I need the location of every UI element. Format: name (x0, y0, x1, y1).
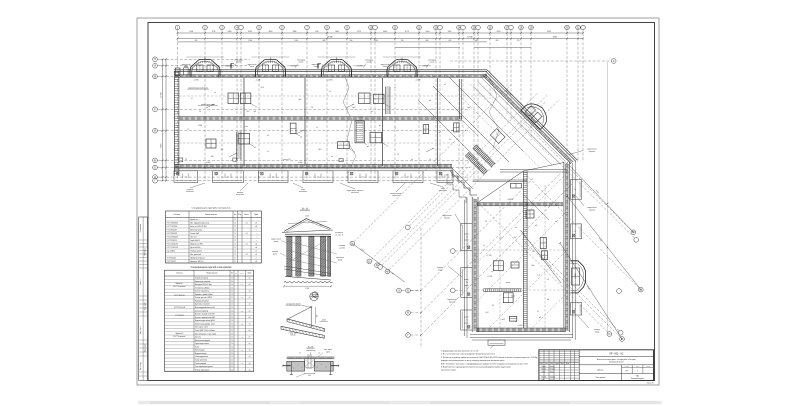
svg-text:12 040: 12 040 (467, 37, 472, 39)
svg-text:в2: в2 (267, 151, 269, 153)
detail A-A head band (285, 233, 331, 235)
svg-text:ООО "Техноплекс": ООО "Техноплекс" (173, 286, 186, 288)
vertical wing bottom eaves lines (470, 334, 573, 336)
svg-text:Наименование: Наименование (205, 214, 217, 216)
svg-text:ГОСТ 11047-90: ГОСТ 11047-90 (167, 247, 178, 249)
page outer border (137, 18, 659, 385)
horizontal wing top wall band (174, 75, 487, 78)
svg-text:Листов: Листов (646, 366, 650, 368)
svg-text:выполнить: выполнить (351, 192, 359, 194)
right side diagonal axes (525, 124, 631, 230)
axis line t14 (418, 30, 420, 33)
svg-text:1 п: 1 п (272, 176, 274, 178)
svg-text:12: 12 (234, 230, 236, 232)
svg-text:0.4: 0.4 (246, 233, 248, 235)
axis line t18 (462, 30, 464, 33)
svg-text:л2: л2 (353, 152, 355, 154)
svg-text:монтажных схемах.: монтажных схемах. (441, 370, 457, 372)
title block left grid (543, 350, 545, 381)
axis bubble 3с (375, 263, 380, 268)
svg-text:"Костромаоблпроект": "Костромаоблпроект" (631, 378, 645, 380)
roof window (240, 93, 250, 104)
axis bubble (405, 225, 410, 230)
chimney left of dormer1 (184, 68, 188, 75)
svg-text:ГОСТ 30693-00: ГОСТ 30693-00 (167, 223, 178, 225)
axis line t9 (326, 30, 328, 33)
svg-text:3920: 3920 (248, 31, 252, 33)
svg-text:Счет обрамления кровли: Счет обрамления кровли (195, 366, 213, 368)
svg-text:снегозадер-: снегозадер- (365, 59, 374, 61)
svg-text:м2: м2 (249, 297, 251, 299)
svg-text:м2: м2 (249, 310, 251, 312)
guard lower rail (281, 326, 324, 338)
vertical wing bottom wall band (476, 328, 566, 332)
axis line Н (158, 65, 166, 67)
svg-text:План кровли: План кровли (596, 377, 605, 379)
axis line t24 (520, 30, 522, 33)
svg-text:уклон 2%: уклон 2% (283, 159, 291, 161)
2-cell box near wing top (511, 183, 522, 188)
svg-text:уклон: уклон (506, 282, 511, 284)
svg-text:1 п: 1 п (407, 176, 409, 178)
svg-text:ГОСТ 19904-90: ГОСТ 19904-90 (167, 237, 178, 239)
leader lines bottom labels (190, 183, 205, 188)
svg-text:1110: 1110 (315, 31, 319, 33)
axis bubble Г (406, 333, 411, 338)
svg-text:размеры всех узлов уточнить по: размеры всех узлов уточнить по месту по … (441, 359, 505, 362)
axis bubble 7 (305, 25, 310, 30)
svg-text:Спецификация изделий и материа: Спецификация изделий и материалов (191, 266, 233, 269)
svg-text:+8.100: +8.100 (575, 273, 577, 278)
right octagon bay (570, 261, 585, 293)
svg-text:1840: 1840 (335, 31, 339, 33)
svg-text:1 п: 1 п (362, 176, 364, 178)
svg-text:Дом №: Дом № (597, 368, 603, 371)
svg-text:лист оцинк.: лист оцинк. (324, 349, 333, 351)
axis line t10 (346, 30, 348, 33)
small vents on bottom wall (179, 158, 183, 162)
ridge walkway ladder (484, 288, 522, 290)
title block right part (578, 350, 580, 381)
svg-text:200: 200 (308, 375, 311, 377)
title block frame (539, 350, 654, 381)
svg-text:ГОСТ 7473-94: ГОСТ 7473-94 (167, 226, 177, 228)
horizontal wing bottom eaves lines (174, 168, 453, 170)
svg-text:1000: 1000 (189, 31, 193, 33)
detail A-A top dim (288, 222, 327, 224)
section B-B joint gap piece (305, 359, 315, 368)
svg-text:0.25: 0.25 (241, 337, 244, 339)
axis line Г (158, 180, 166, 182)
svg-text:Взам. инв. №: Взам. инв. № (140, 325, 142, 334)
svg-text:и7: и7 (439, 132, 441, 134)
svg-text:уклон: уклон (244, 126, 248, 128)
detail A-A bottom dim (284, 285, 331, 287)
svg-text:м2: м2 (255, 254, 257, 256)
svg-text:8 360: 8 360 (553, 37, 557, 39)
roof window (370, 132, 382, 142)
axis bubble (476, 25, 481, 30)
svg-text:входа: входа (595, 332, 599, 334)
svg-text:Стадия: Стадия (625, 366, 630, 368)
svg-text:5500: 5500 (426, 31, 430, 33)
roof window (540, 237, 546, 248)
svg-text:Зонт вентшахты - сталь оцинк.: Зонт вентшахты - сталь оцинк. (195, 333, 217, 335)
axis bubble 4 (235, 25, 240, 30)
axis bubble (450, 288, 455, 293)
svg-text:0.25: 0.25 (241, 323, 244, 325)
axis line t3 (221, 30, 223, 33)
svg-text:Обознач.: Обознач. (173, 214, 181, 216)
eaves line above dormers (186, 56, 224, 58)
svg-text:Желоб водост.: Желоб водост. (195, 350, 206, 352)
svg-text:+4.2: +4.2 (469, 167, 472, 169)
svg-text:м2: м2 (249, 350, 251, 352)
svg-text:12: 12 (234, 226, 236, 228)
svg-text:Подп: Подп (560, 363, 563, 365)
svg-text:в3: в3 (535, 225, 537, 227)
svg-text:1п: 1п (467, 237, 469, 239)
axis bubble 10 (369, 25, 374, 30)
axis line t2 (204, 30, 206, 33)
svg-text:выполнить: выполнить (299, 191, 307, 193)
svg-text:620: 620 (449, 40, 452, 42)
horizontal wing left wall band (ladder style) (173, 71, 175, 176)
svg-text:+7.120: +7.120 (486, 255, 491, 257)
svg-text:1 340: 1 340 (248, 40, 252, 42)
svg-text:+4.160: +4.160 (444, 175, 449, 177)
roof ladder (236, 132, 238, 160)
svg-text:4. Изменения по стадии докумен: 4. Изменения по стадии документы проекта… (441, 366, 511, 369)
svg-text:м2: м2 (249, 369, 251, 371)
svg-text:46 480: 46 480 (327, 37, 332, 39)
svg-text:1960: 1960 (448, 31, 452, 33)
svg-text:12: 12 (234, 258, 236, 260)
svg-text:Лотки: Лотки (195, 346, 199, 348)
svg-text:м3: м3 (255, 226, 257, 228)
svg-text:ГОСТ 23-101-04: ГОСТ 23-101-04 (174, 307, 185, 309)
svg-text:Смирнов: Смирнов (550, 377, 556, 379)
svg-text:входная: входная (187, 189, 193, 191)
roof window (509, 316, 516, 321)
vertical wing right eaves lines (572, 163, 574, 338)
svg-text:Кол: Кол (231, 273, 233, 275)
svg-text:12: 12 (234, 237, 236, 239)
svg-text:Орлов: Орлов (550, 371, 554, 373)
svg-text:Справ. №: Справ. № (140, 278, 142, 284)
junction steps (452, 169, 477, 195)
svg-text:водосточная воронка: водосточная воронка (347, 190, 364, 192)
svg-text:+10.8: +10.8 (260, 87, 264, 89)
axis bubble К (611, 59, 616, 64)
detail A-A circle mark (312, 292, 318, 298)
svg-text:кв: кв (491, 271, 493, 273)
axis line t13 (394, 30, 396, 33)
diagonal dashed axes from lower-left (421, 179, 533, 291)
vertical wing top-right horizontal band (500, 169, 567, 171)
axis bubble (461, 25, 466, 30)
section B-B dims (305, 373, 315, 375)
svg-text:ВСЕ: "Техноплекс" или аналог -: ВСЕ: "Техноплекс" или аналог - сертифици… (441, 362, 528, 365)
svg-text:Вариант 2: Вариант 2 (176, 333, 184, 335)
stage sheet cells (621, 365, 623, 381)
axis bubble 5 (257, 25, 262, 30)
roof window (338, 142, 350, 149)
svg-text:л1: л1 (388, 107, 390, 109)
svg-text:ш1: ш1 (367, 146, 369, 148)
roof window (423, 125, 429, 134)
svg-text:Стяжка цем.-песч. М150: Стяжка цем.-песч. М150 (195, 297, 212, 299)
svg-text:ГИП Иванов: ГИП Иванов (145, 248, 147, 256)
svg-text:компенсатор: компенсатор (307, 350, 316, 352)
axis bubble (373, 25, 378, 30)
svg-text:+4.870: +4.870 (415, 80, 420, 82)
axis line t5 (240, 30, 242, 33)
svg-text:Кр1: Кр1 (254, 111, 257, 113)
roof window (359, 93, 371, 104)
axis line t22 (506, 30, 508, 33)
svg-text:Н.контр.: Н.контр. (542, 377, 548, 379)
svg-text:900 мм: 900 мм (291, 335, 296, 337)
svg-text:2570: 2570 (357, 31, 361, 33)
svg-text:козырек: козырек (594, 329, 600, 331)
roof window (228, 93, 238, 104)
vertical wing ridge ladder (522, 171, 524, 328)
vertical wing interior dashed (499, 190, 501, 328)
svg-text:3540: 3540 (547, 31, 551, 33)
svg-text:4650: 4650 (269, 31, 273, 33)
svg-text:1 130: 1 130 (374, 40, 378, 42)
bubbles left of vertical wing (455, 250, 462, 252)
svg-text:Воронки желоба: Воронки желоба (195, 353, 207, 355)
svg-text:выполнить: выполнить (392, 195, 400, 197)
svg-text:доска: доска (273, 253, 277, 255)
axis bubble Ж (153, 158, 158, 163)
svg-text:ТУ 5774-001: ТУ 5774-001 (167, 258, 176, 260)
svg-text:(согласно проекту): (согласно проекту) (195, 310, 209, 312)
axis bubble (450, 249, 455, 254)
left wall balcony bays (461, 224, 472, 251)
svg-text:ТЗ: ТЗ (187, 129, 189, 131)
axis bubble Б (406, 288, 411, 293)
svg-text:Б-3: Б-3 (486, 312, 489, 314)
svg-text:12: 12 (234, 219, 236, 221)
axis line t23 (510, 30, 512, 33)
svg-text:водосточная: водосточная (587, 149, 596, 151)
svg-text:ТУ 5774-001: ТУ 5774-001 (175, 315, 184, 317)
svg-text:12: 12 (234, 251, 236, 253)
axis line Ж (158, 159, 166, 161)
right diagonal dimension lines (567, 163, 633, 232)
diagonal dashed axes through wing (477, 175, 565, 263)
svg-text:желоб: желоб (250, 66, 254, 68)
axis line t20 (477, 30, 479, 33)
axis line t17 (458, 30, 460, 33)
svg-text:ж4: ж4 (451, 130, 453, 132)
axis bubble 16 (488, 25, 493, 30)
axis line t16 (439, 30, 441, 33)
axis line t11 (370, 30, 372, 33)
axis bubble (438, 25, 443, 30)
roof ladder (385, 87, 387, 114)
leader to gutter label right (569, 151, 583, 155)
axis bubble 8с (620, 337, 625, 342)
svg-text:ГОСТ 8509-93: ГОСТ 8509-93 (167, 233, 177, 235)
svg-text:Бетон кл. В15 F75 W4: Бетон кл. В15 F75 W4 (190, 226, 206, 228)
axis bubble 20 (565, 25, 570, 30)
svg-text:ГИП: ГИП (542, 379, 545, 381)
svg-text:ГОСТ 24045-94: ГОСТ 24045-94 (167, 244, 178, 246)
roof window (503, 293, 513, 303)
angled stair band (dense hatch) (467, 154, 486, 173)
svg-text:1 п: 1 п (227, 176, 229, 178)
svg-text:водосточная: водосточная (587, 207, 596, 209)
svg-text:ж2: ж2 (444, 84, 446, 86)
roof window (526, 210, 534, 218)
svg-text:540: 540 (475, 40, 478, 42)
axis line t7 (281, 30, 283, 33)
svg-text:см. лист 8: см. лист 8 (335, 234, 343, 236)
horizontal wing top eaves line (174, 69, 487, 71)
svg-text:вход: вход (301, 189, 305, 191)
horizontal wing bottom wall band (174, 164, 452, 167)
axis line t26 (566, 30, 568, 33)
svg-text:1. Деформационные швы выполнит: 1. Деформационные швы выполнить по т.л. … (441, 350, 479, 353)
svg-text:3. Работы по устройству кровли: 3. Работы по устройству кровли вести сог… (441, 356, 538, 359)
axis bubble 6с (638, 287, 643, 292)
detail A-A bottom slope lines (284, 266, 331, 274)
svg-text:вход: вход (441, 188, 445, 190)
svg-text:1 200: 1 200 (305, 288, 309, 290)
svg-text:в2: в2 (300, 137, 302, 139)
svg-text:25°: 25° (292, 226, 295, 228)
svg-text:Кол: Кол (545, 363, 547, 365)
svg-text:снегозадер-: снегозадер- (428, 59, 437, 61)
svg-text:1п: 1п (467, 282, 469, 284)
svg-text:Кровля из ...: Кровля из ... (190, 219, 200, 221)
axis line t28 (582, 30, 584, 33)
svg-text:660: 660 (323, 40, 326, 42)
svg-text:жатель: жатель (299, 62, 304, 64)
scan shadow at image bottom (138, 401, 662, 404)
svg-text:Масса: Масса (244, 214, 248, 216)
axis bubble K top right (450, 60, 610, 62)
axis bubble 2 (203, 25, 208, 30)
axis line t12 (374, 30, 376, 33)
axis K extension line (606, 62, 608, 334)
svg-text:1-4°: 1-4° (538, 275, 541, 277)
roof window (511, 262, 519, 268)
axis line И (158, 130, 166, 132)
angled wing outer eaves (487, 70, 578, 161)
axis line t8 (306, 30, 308, 33)
svg-text:м2: м2 (255, 223, 257, 225)
svg-text:50х50: 50х50 (338, 259, 342, 261)
svg-text:л1: л1 (316, 127, 318, 129)
svg-text:м2: м2 (249, 304, 251, 306)
axis bubble Е (153, 165, 158, 170)
axis bubble (509, 25, 514, 30)
svg-text:ГОСТ 30547-97: ГОСТ 30547-97 (174, 295, 185, 297)
axis bubble 5с (631, 230, 636, 235)
svg-text:Многоэтажные жилые дома с 1-б: Многоэтажные жилые дома с 1-б видов рабо… (597, 359, 637, 361)
guard rail detail (281, 303, 328, 338)
axis bubble (618, 330, 623, 335)
svg-text:Подп. и дата: Подп. и дата (145, 302, 147, 310)
leader below wing (490, 345, 494, 349)
axis bubble 1с (350, 241, 355, 246)
svg-text:кв: кв (394, 87, 396, 89)
svg-text:жатель: жатель (430, 62, 435, 64)
vertical wing top corridor band (477, 203, 563, 206)
svg-text:1 550: 1 550 (184, 65, 188, 67)
axis bubble 4с (385, 269, 390, 274)
bottom balcony bays (174, 171, 198, 183)
svg-text:Прим.: Прим. (254, 214, 259, 216)
svg-text:кв: кв (214, 92, 216, 94)
roof window (290, 123, 296, 134)
svg-text:Трубы водосточные: Трубы водосточные (195, 343, 209, 345)
roof window (493, 261, 503, 271)
svg-text:л3: л3 (329, 91, 331, 93)
svg-text:Кол: Кол (234, 214, 237, 216)
svg-text:Климова: Климова (550, 379, 556, 381)
svg-text:м2: м2 (255, 261, 257, 263)
axis bubble А (397, 288, 402, 293)
svg-text:Инв. № подл.: Инв. № подл. (140, 361, 142, 370)
svg-text:м2: м2 (255, 244, 257, 246)
svg-text:М.ед: М.ед (238, 214, 241, 216)
axis bubble 2с (367, 259, 372, 264)
detail A-A corrugated sheet (284, 281, 332, 282)
svg-text:Вариант 1: Вариант 1 (176, 283, 184, 285)
vertical wing left eaves lines (464, 200, 466, 336)
svg-text:и5: и5 (379, 125, 381, 127)
svg-text:л2: л2 (429, 159, 431, 161)
svg-text:сер.1.038-1: сер.1.038-1 (167, 251, 176, 253)
detail A-A roof peak (284, 219, 331, 232)
angled slope parallels near eave (481, 78, 566, 163)
axis bubble 12 (417, 25, 422, 30)
svg-text:+7.120: +7.120 (357, 117, 362, 119)
svg-text:Подп. и дата: Подп. и дата (145, 344, 147, 352)
axis bubble 1 (175, 25, 180, 30)
svg-text:Петрова: Петрова (550, 369, 555, 371)
svg-text:кляммер: кляммер (339, 245, 346, 247)
svg-text:920: 920 (195, 40, 198, 42)
svg-text:в2: в2 (267, 135, 269, 137)
svg-text:м2: м2 (249, 363, 251, 365)
svg-text:Изопласт ЭКП-5.0: Изопласт ЭКП-5.0 (190, 261, 203, 263)
axis bubble 6 (280, 25, 285, 30)
svg-text:0.4: 0.4 (246, 254, 248, 256)
stair exit top-left corner (176, 68, 181, 76)
svg-text:+4.160: +4.160 (206, 162, 211, 164)
svg-text:+4.870: +4.870 (517, 325, 522, 327)
svg-text:Кр2: Кр2 (468, 107, 471, 109)
svg-text:12: 12 (234, 233, 236, 235)
interior slope diagonal (521, 230, 562, 283)
svg-text:1 пог: 1 пог (499, 238, 503, 240)
svg-text:Н: Н (154, 65, 156, 68)
svg-text:м2: м2 (249, 323, 251, 325)
svg-text:ООО "Техноплекс": ООО "Техноплекс" (173, 336, 186, 338)
svg-text:1 п: 1 п (185, 176, 187, 178)
axis bubble 8 (325, 25, 330, 30)
svg-text:м2: м2 (249, 284, 251, 286)
section B-B side wings (283, 365, 291, 367)
svg-text:М: М (154, 75, 156, 78)
